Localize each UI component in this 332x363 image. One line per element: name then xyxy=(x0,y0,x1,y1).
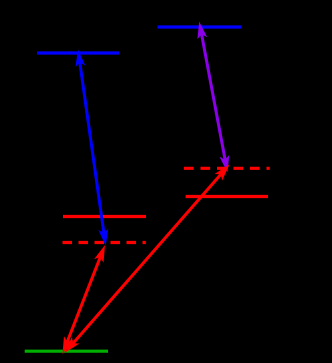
level: intermediate state (red solid, right column) xyxy=(186,195,268,198)
level: virtual level (red dashed, right column) xyxy=(184,167,270,170)
arrow: blue two-photon transition (upper blue level to left virtual level, double-headed) xyxy=(75,50,108,247)
arrow: red pump transition (ground state to right virtual level, double-headed) xyxy=(65,165,230,354)
arrow: purple transition (upper right blue level to right virtual level, double-headed) xyxy=(197,22,229,173)
level: virtual level (red dashed, left column) xyxy=(63,241,146,244)
level: ground state (green) xyxy=(25,350,108,353)
arrow: red pump transition (ground state to left virtual level, double-headed) xyxy=(63,245,106,354)
level: intermediate state (red solid, left column) xyxy=(63,215,146,218)
level: upper excited state (blue, left column) xyxy=(37,51,119,54)
level: upper excited state (blue, right column) xyxy=(158,25,242,28)
